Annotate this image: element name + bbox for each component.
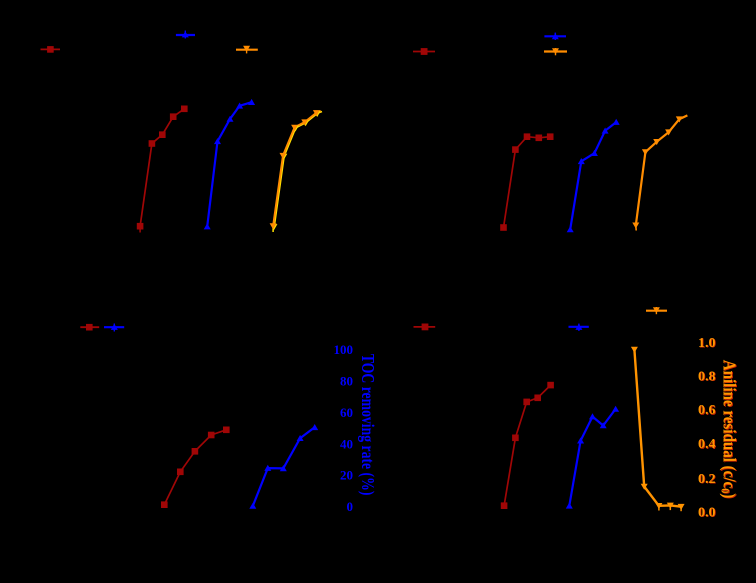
legend TR series2 (blue triangle-up) xyxy=(544,33,566,40)
legend BL series2 (blue triangle-up) xyxy=(104,324,124,332)
svg-text:40: 40 xyxy=(340,436,353,451)
TR curve orange (triangles down) xyxy=(632,115,687,230)
legend TL series3 (orange triangle-down) xyxy=(236,46,258,54)
TR curve red (squares) xyxy=(500,133,553,230)
svg-text:0.4: 0.4 xyxy=(698,437,716,452)
TR curve blue (triangles up) xyxy=(567,119,620,232)
BR curve blue (triangles up) xyxy=(566,406,619,509)
TL curve orange with yellow fringe (triangles down) xyxy=(270,110,322,232)
TL curve blue (triangles up) xyxy=(204,99,255,230)
svg-text:0.0: 0.0 xyxy=(698,505,716,520)
svg-text:0.6: 0.6 xyxy=(698,403,716,418)
legend TR series3 (orange triangle-down) xyxy=(544,48,567,55)
BL curve blue (triangles up) xyxy=(249,424,318,509)
legend TL series2 (blue triangle-up) xyxy=(176,31,195,39)
BR curve orange (triangles down) xyxy=(631,347,685,511)
legend TR series1 (dark red square) xyxy=(413,48,435,55)
svg-text:0: 0 xyxy=(347,499,354,514)
svg-text:Aniline residual (c/c0): Aniline residual (c/c0) xyxy=(718,360,740,499)
legend BR series1 (dark red square) xyxy=(414,324,436,331)
legend BR series3 (orange triangle-down) xyxy=(646,307,667,314)
TL curve red (squares) xyxy=(137,106,188,233)
BR curve red (squares) xyxy=(501,382,554,509)
BL curve red (squares) xyxy=(161,427,230,509)
svg-text:100: 100 xyxy=(334,342,354,357)
svg-text:0.2: 0.2 xyxy=(698,472,716,487)
right axis BR: orange tick labels (red shadow) xyxy=(699,337,717,522)
right axis BL: blue tick labels xyxy=(334,342,354,514)
svg-text:TOC removing rate (%): TOC removing rate (%) xyxy=(358,354,377,496)
legend BL series1 (dark red square) xyxy=(80,324,99,331)
svg-text:60: 60 xyxy=(340,405,353,420)
svg-text:0.8: 0.8 xyxy=(698,369,716,384)
svg-text:1.0: 1.0 xyxy=(698,336,716,351)
legend TL series1 (dark red square) xyxy=(41,46,61,53)
svg-text:20: 20 xyxy=(340,468,353,483)
svg-text:80: 80 xyxy=(340,374,353,389)
legend BR series2 (blue triangle-up) xyxy=(569,324,589,331)
